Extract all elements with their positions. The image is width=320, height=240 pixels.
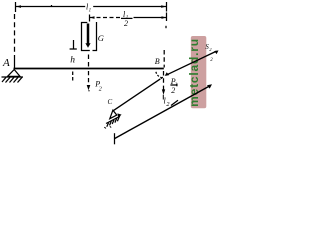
svg-text:A: A [2, 57, 10, 69]
svg-text:C: C [108, 98, 113, 106]
svg-text:2: 2 [124, 19, 128, 28]
svg-text:h: h [70, 56, 75, 66]
svg-text:1: 1 [89, 9, 92, 14]
svg-text:B: B [155, 57, 160, 66]
svg-text:2: 2 [99, 87, 102, 93]
svg-text:G: G [98, 33, 104, 43]
svg-text:2: 2 [171, 86, 175, 95]
